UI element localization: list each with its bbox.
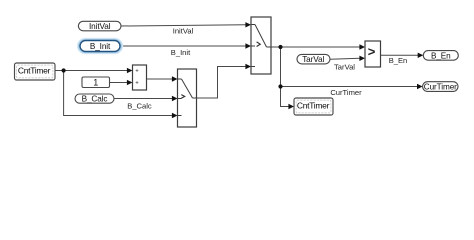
svg-text:>: > [368,44,376,59]
svg-text:CurTimer: CurTimer [330,88,362,97]
svg-text:B_En: B_En [389,56,408,65]
svg-text:B_En: B_En [431,51,451,60]
svg-text:B_Calc: B_Calc [82,95,108,104]
svg-text:InitVal: InitVal [89,22,111,31]
svg-text:InitVal: InitVal [173,26,194,35]
svg-text:B_Init: B_Init [90,42,111,51]
svg-text:B_Init: B_Init [171,48,191,57]
svg-text:1: 1 [93,78,98,88]
svg-text:TarVal: TarVal [334,62,355,71]
svg-text:TarVal: TarVal [302,55,324,64]
svg-text:CntTimer: CntTimer [297,101,330,111]
svg-text:B_Calc: B_Calc [127,101,152,110]
svg-text:CntTimer: CntTimer [18,66,51,76]
svg-text:CurTimer: CurTimer [424,83,457,92]
